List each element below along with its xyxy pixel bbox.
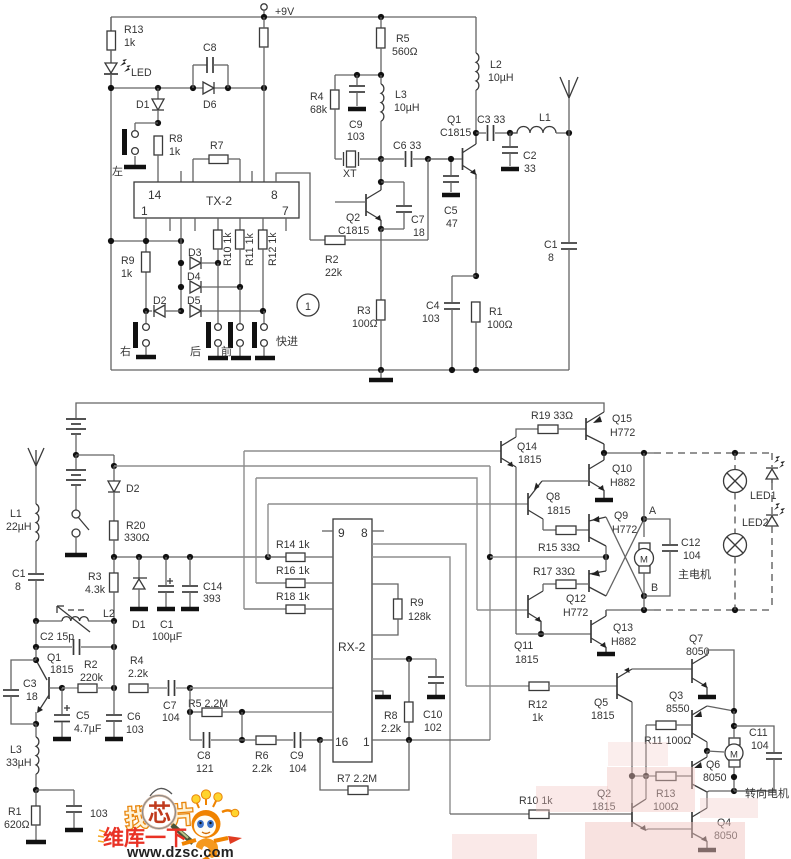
svg-text:C8: C8 <box>197 750 211 762</box>
lamp LP1 <box>724 453 777 502</box>
transistor Q4 8050 <box>692 791 738 848</box>
svg-text:7: 7 <box>282 204 289 218</box>
capacitor C5 4.7uF <box>53 685 102 739</box>
resistor R19 33 <box>516 410 586 437</box>
resistor R9 <box>121 252 150 280</box>
svg-text:8050: 8050 <box>686 646 710 658</box>
pushbutton 快进 <box>252 311 298 358</box>
svg-text:D5: D5 <box>187 295 201 307</box>
transistor Q2 C1815 <box>335 182 381 237</box>
svg-text:C7: C7 <box>163 700 177 712</box>
diode D3 <box>188 247 218 269</box>
svg-text:C3 33: C3 33 <box>477 114 505 126</box>
wire TX bottom rail <box>111 369 569 371</box>
svg-text:M: M <box>640 555 648 566</box>
svg-text:C6: C6 <box>127 711 141 723</box>
svg-text:330Ω: 330Ω <box>124 532 150 544</box>
transistor Q5 1815 <box>591 668 632 723</box>
svg-text:A: A <box>649 505 657 517</box>
svg-text:4.7µF: 4.7µF <box>74 723 102 735</box>
svg-text:100Ω: 100Ω <box>352 318 378 330</box>
ground Q4 <box>698 848 716 853</box>
resistor R2 220k <box>62 659 114 693</box>
svg-text:R2: R2 <box>325 254 339 266</box>
transistor Q7 8050 <box>686 633 710 695</box>
svg-text:560Ω: 560Ω <box>392 46 418 58</box>
wire R5 row y712 <box>242 711 333 713</box>
ground Q10 <box>595 498 613 503</box>
svg-text:XT: XT <box>343 168 357 180</box>
svg-text:128k: 128k <box>408 611 432 623</box>
capacitor C5 <box>442 159 460 230</box>
capacitor C10 102 <box>423 659 445 734</box>
svg-text:22k: 22k <box>325 267 343 279</box>
inductor L3 RX <box>6 724 39 790</box>
wire Q3 emitter to node <box>707 706 734 711</box>
svg-text:D1: D1 <box>132 619 146 631</box>
svg-text:8: 8 <box>361 526 368 540</box>
svg-text:33µH: 33µH <box>6 757 32 769</box>
wire battery gray feed row y466 <box>114 465 490 467</box>
capacitor C6 <box>381 140 447 167</box>
capacitor C9 104 <box>289 732 320 775</box>
wire route x268 R14 riser <box>267 504 269 557</box>
transistor Q8 1815 <box>528 481 571 519</box>
svg-text:C1: C1 <box>544 239 558 251</box>
wire A column <box>643 453 645 537</box>
wire pin stub top <box>180 171 182 182</box>
wire node row y88 <box>111 87 264 89</box>
capacitor C2 <box>501 133 537 175</box>
svg-text:R3: R3 <box>357 305 371 317</box>
svg-text:R7 2.2M: R7 2.2M <box>337 773 377 785</box>
resistor R8 2.2k <box>381 659 413 740</box>
svg-text:1: 1 <box>305 301 311 313</box>
watermark 找芯片 outline text <box>125 801 196 832</box>
wire x242 column <box>241 712 243 740</box>
svg-text:C4: C4 <box>426 300 440 312</box>
wire pin8 stub <box>372 530 384 532</box>
svg-text:D1: D1 <box>136 99 150 111</box>
svg-text:LED: LED <box>131 67 152 79</box>
resistor R13 100 <box>632 772 692 813</box>
svg-text:Q13: Q13 <box>613 622 633 634</box>
wire Q10 base row <box>542 480 589 482</box>
lamp LP2 <box>724 493 769 611</box>
svg-text:C6 33: C6 33 <box>393 140 421 152</box>
dashed lamp feed row <box>654 452 772 454</box>
inductor L2 <box>476 17 514 139</box>
svg-text:M: M <box>730 750 738 761</box>
svg-text:4.3k: 4.3k <box>85 584 106 596</box>
svg-text:R10 1k: R10 1k <box>222 232 234 266</box>
wire pin1 column <box>145 218 147 311</box>
wire Q14 emitter long drop x516 <box>515 467 517 634</box>
svg-text:8: 8 <box>271 188 278 202</box>
capacitor C7 104 <box>162 680 190 724</box>
svg-text:C2 15p: C2 15p <box>40 631 74 643</box>
svg-text:www.dzsc.com: www.dzsc.com <box>126 845 234 859</box>
resistor R16 1k <box>256 565 333 588</box>
watermark red brand text <box>98 826 187 850</box>
svg-text:C1815: C1815 <box>440 127 471 139</box>
svg-text:L3: L3 <box>395 89 407 101</box>
svg-text:芯: 芯 <box>148 800 171 826</box>
wire bridge bottom row y610 <box>606 609 654 611</box>
resistor R10 1k <box>450 795 632 819</box>
wire Q8 collector to R15 <box>542 519 544 530</box>
capacitor C14 <box>181 557 223 609</box>
resistor R20 <box>110 520 150 557</box>
svg-text:C7: C7 <box>411 214 425 226</box>
svg-text:C10: C10 <box>423 709 443 721</box>
resistor R14 1k <box>268 539 333 562</box>
transistor Q6 8050 <box>692 757 727 792</box>
transistor Q3 8550 <box>666 690 707 742</box>
LED indicator <box>104 50 152 88</box>
transistor Q10 H882 <box>589 453 635 498</box>
svg-text:L2: L2 <box>490 59 502 71</box>
watermark mascot <box>182 790 242 859</box>
svg-text:102: 102 <box>424 722 442 734</box>
svg-text:C9: C9 <box>290 750 304 762</box>
svg-text:18: 18 <box>26 691 38 703</box>
svg-text:1: 1 <box>363 735 370 749</box>
resistor R17 33 <box>533 566 589 589</box>
svg-text:C3: C3 <box>23 678 37 690</box>
svg-text:C14: C14 <box>203 581 223 593</box>
wire route chip right row y557 <box>372 557 450 814</box>
svg-text:L1: L1 <box>10 508 22 520</box>
SEC_RX3 <box>450 633 789 850</box>
wire Q3 collector drop <box>706 742 708 751</box>
+9V terminal <box>261 4 295 18</box>
svg-text:C5: C5 <box>444 205 458 217</box>
svg-text:1815: 1815 <box>591 710 615 722</box>
svg-text:Q7: Q7 <box>689 633 703 645</box>
pushbutton 左 <box>112 123 158 178</box>
svg-text:L3: L3 <box>10 744 22 756</box>
wire R11 left riser x646 <box>645 725 647 776</box>
wire Q6 emitter to node <box>706 751 708 757</box>
svg-text:Q2: Q2 <box>346 212 360 224</box>
svg-text:33: 33 <box>524 163 536 175</box>
wire row y241 <box>111 240 181 242</box>
svg-text:103: 103 <box>90 808 108 820</box>
svg-text:Q11: Q11 <box>514 640 533 652</box>
transistor Q9 H772 <box>589 510 637 546</box>
wire Q2 emitter row to Q4 base <box>646 829 692 830</box>
resistor R10 <box>214 218 235 266</box>
wire RX top supply rail <box>76 403 604 418</box>
diode D4 <box>187 271 240 293</box>
svg-text:LED2: LED2 <box>742 517 769 529</box>
svg-text:Q14: Q14 <box>517 441 537 453</box>
wire Q9-Q12 mid column <box>605 546 607 571</box>
node +9V junction <box>261 14 267 20</box>
svg-text:Q5: Q5 <box>594 697 608 709</box>
svg-text:Q12: Q12 <box>566 593 586 605</box>
svg-text:C8: C8 <box>203 42 217 54</box>
capacitor C11 104 <box>734 726 782 791</box>
capacitor C8 <box>193 42 228 88</box>
svg-text:121: 121 <box>196 763 214 775</box>
svg-text:左: 左 <box>112 165 123 178</box>
svg-text:TX-2: TX-2 <box>206 194 232 208</box>
wire route x244 R18 riser <box>243 451 245 609</box>
svg-text:1k: 1k <box>124 37 136 49</box>
wire x114 column mid <box>113 621 115 688</box>
wire pin9 stub <box>322 530 333 532</box>
ground Q13 <box>597 652 615 657</box>
wire route row y478 <box>256 478 477 610</box>
capacitor C1 <box>544 133 577 370</box>
svg-text:104: 104 <box>162 712 180 724</box>
resistor R6 2.2k <box>242 736 293 775</box>
wire row y75 <box>335 74 381 76</box>
svg-text:1815: 1815 <box>515 654 539 666</box>
svg-text:C1: C1 <box>160 619 174 631</box>
svg-text:2.2k: 2.2k <box>128 668 149 680</box>
svg-text:R11 1k: R11 1k <box>244 233 256 266</box>
svg-text:R9: R9 <box>410 597 424 609</box>
svg-text:8: 8 <box>548 252 554 264</box>
svg-text:C11: C11 <box>749 727 768 739</box>
svg-text:2.2k: 2.2k <box>252 763 273 775</box>
svg-text:D2: D2 <box>126 483 140 495</box>
capacitor C12 104 <box>644 519 711 596</box>
wire Q1 column <box>35 647 37 660</box>
wire route row y610 to Q11 base <box>477 609 528 611</box>
wire pin stubs bottom <box>169 218 171 231</box>
resistor R7 <box>193 140 240 182</box>
svg-text:8: 8 <box>15 581 21 593</box>
node B <box>641 593 647 599</box>
svg-text:H882: H882 <box>610 477 635 489</box>
svg-text:68k: 68k <box>310 104 328 116</box>
svg-text:后: 后 <box>190 345 201 358</box>
svg-text:前: 前 <box>221 344 232 358</box>
resistor R15 33 <box>538 526 589 554</box>
svg-text:104: 104 <box>289 763 307 775</box>
svg-text:L1: L1 <box>539 112 551 124</box>
resistor R1 <box>472 302 513 370</box>
capacitor C8 121 <box>190 732 242 775</box>
svg-text:主电机: 主电机 <box>678 567 711 581</box>
wire TX left edge <box>110 17 112 370</box>
capacitor C3 <box>476 114 510 141</box>
wire C7 row to RX-2 <box>190 687 333 689</box>
svg-text:D4: D4 <box>187 271 201 283</box>
capacitor 103 bias <box>36 790 108 830</box>
diode D2 <box>146 295 181 317</box>
resistor R9 128k <box>372 584 432 635</box>
svg-text:D6: D6 <box>203 99 217 111</box>
svg-text:H772: H772 <box>563 607 588 619</box>
svg-text:9: 9 <box>338 526 345 540</box>
battery B2 <box>66 455 86 510</box>
transistor Q12 H772 <box>563 570 606 619</box>
svg-text:1815: 1815 <box>50 664 74 676</box>
svg-text:103: 103 <box>126 724 144 736</box>
wire route battery feed drop x490 <box>489 466 491 740</box>
svg-text:100Ω: 100Ω <box>487 319 513 331</box>
wire route row y557 to bridge <box>490 556 606 558</box>
resistor R7 2.2M <box>320 740 409 795</box>
wire Q1 collector node <box>473 130 479 136</box>
IC TX-2 <box>134 182 299 218</box>
inductor L1 RX <box>6 504 39 573</box>
capacitor C7 <box>381 182 425 239</box>
svg-text:Q6: Q6 <box>706 759 720 771</box>
SEC_TX1 <box>310 17 578 380</box>
svg-text:620Ω: 620Ω <box>4 819 30 831</box>
pushbutton 前 <box>221 287 251 358</box>
wire diode anode column x181 <box>180 218 182 311</box>
svg-text:103: 103 <box>422 313 440 325</box>
capacitor C1 100uF <box>152 557 183 643</box>
wire X cross Q9 to B <box>606 517 644 596</box>
diode D2 <box>108 466 140 521</box>
node R5 top junction <box>378 14 384 20</box>
svg-text:R19 33Ω: R19 33Ω <box>531 410 573 422</box>
svg-text:H882: H882 <box>611 636 636 648</box>
svg-text:2.2k: 2.2k <box>381 723 402 735</box>
svg-text:R3: R3 <box>88 571 102 583</box>
SEC_TX2 <box>3 403 604 842</box>
svg-text:D3: D3 <box>188 247 202 259</box>
svg-text:10µH: 10µH <box>394 102 420 114</box>
transistor Q1 1815 RX <box>36 652 74 713</box>
svg-text:104: 104 <box>683 550 701 562</box>
svg-text:R7: R7 <box>210 140 224 152</box>
svg-text:1: 1 <box>141 204 148 218</box>
svg-text:16: 16 <box>335 735 349 749</box>
transistor Q14 1815 <box>501 437 542 467</box>
wire Q1 emitter column <box>475 179 477 276</box>
inductor L1 <box>510 112 569 133</box>
svg-text:C1: C1 <box>12 568 26 580</box>
inductor L3 <box>381 75 420 159</box>
wire Q5 collector row to Q7 base <box>632 668 692 670</box>
switch SW <box>65 510 89 555</box>
diode D6 <box>203 82 217 111</box>
svg-text:1815: 1815 <box>547 505 571 517</box>
wire Q3 collector to motor top <box>707 751 724 752</box>
svg-text:R5: R5 <box>396 33 410 45</box>
svg-text:103: 103 <box>347 131 365 143</box>
motor M main <box>635 543 654 610</box>
wire C10 row y659 <box>372 658 436 660</box>
svg-text:Q3: Q3 <box>669 690 683 702</box>
wire Q2 emitter column <box>380 229 382 300</box>
antenna RX <box>28 448 44 504</box>
diode D5 <box>187 295 263 317</box>
transistor Q1 C1815 <box>428 114 476 179</box>
resistor R12 1k <box>466 682 617 724</box>
svg-text:+9V: +9V <box>275 6 295 18</box>
svg-text:R12: R12 <box>528 699 548 711</box>
resistor R11 100 <box>644 721 692 747</box>
svg-text:H772: H772 <box>610 427 635 439</box>
svg-text:RX-2: RX-2 <box>338 640 366 654</box>
svg-text:R4: R4 <box>310 91 324 103</box>
wire route row y451 to Q14 base <box>244 450 501 452</box>
wire route x256 R16 riser <box>255 478 257 583</box>
resistor unlabeled top right column <box>260 17 269 182</box>
capacitor C1 RX ant <box>12 568 44 621</box>
wire route chip right row y544 <box>372 544 466 686</box>
svg-text:104: 104 <box>751 740 769 752</box>
resistor R11 <box>236 218 257 287</box>
capacitor C6 103 <box>105 688 144 739</box>
pushbutton 后 <box>190 263 228 358</box>
wire Q6 collector row y791 <box>707 791 776 792</box>
resistor R1 620 <box>4 790 46 842</box>
svg-text:R2: R2 <box>84 659 98 671</box>
svg-text:1k: 1k <box>169 146 181 158</box>
ground TX main <box>369 370 393 380</box>
motor M steering <box>725 711 743 791</box>
svg-text:C5: C5 <box>76 710 90 722</box>
ground Q7 <box>698 695 716 700</box>
svg-text:220k: 220k <box>80 672 104 684</box>
capacitor C2 15p <box>36 621 114 655</box>
svg-text:R8: R8 <box>169 133 183 145</box>
capacitor C3 RX <box>3 660 38 724</box>
svg-text:Q9: Q9 <box>614 510 628 522</box>
wire Q7 collector to motor column <box>707 650 734 711</box>
svg-text:C12: C12 <box>681 537 701 549</box>
wire X cross Q12 to A <box>606 519 644 596</box>
resistor R3 4.3k <box>85 557 118 621</box>
wire x190 column <box>189 688 191 740</box>
svg-text:Q1: Q1 <box>447 114 461 126</box>
svg-text:R14 1k: R14 1k <box>276 539 310 551</box>
IC RX-2 <box>333 519 372 762</box>
transistor Q15 H772 <box>586 412 635 453</box>
wire VCC rail y557 <box>114 556 287 558</box>
node circled 1 <box>297 294 319 316</box>
battery B1 <box>66 419 86 455</box>
wire route row y504 to Q8 base <box>268 503 528 505</box>
capacitor C4 <box>422 276 476 370</box>
transistor Q13 H882 <box>591 610 636 652</box>
svg-text:R16 1k: R16 1k <box>276 565 310 577</box>
svg-text:8550: 8550 <box>666 703 690 715</box>
transistor Q11 1815 <box>514 584 543 666</box>
svg-text:R9: R9 <box>121 255 135 267</box>
resistor R4 <box>310 75 339 159</box>
svg-text:R4: R4 <box>130 655 144 667</box>
resistor R12 <box>259 218 280 311</box>
svg-text:快进: 快进 <box>276 335 298 348</box>
svg-text:1k: 1k <box>532 712 544 724</box>
svg-text:R20: R20 <box>126 520 146 532</box>
svg-text:47: 47 <box>446 218 458 230</box>
svg-text:右: 右 <box>120 344 131 358</box>
SEC_RX1 <box>187 451 609 814</box>
zener D1 <box>130 557 148 631</box>
inductor L2 RX tunable <box>36 606 115 632</box>
wire pin1 row <box>372 739 490 741</box>
svg-text:H772: H772 <box>612 524 637 536</box>
wire pin16 stub <box>320 739 333 741</box>
resistor R2 <box>310 159 428 279</box>
resistor R13 <box>107 17 144 50</box>
svg-text:R1: R1 <box>489 306 503 318</box>
svg-text:8050: 8050 <box>703 772 727 784</box>
